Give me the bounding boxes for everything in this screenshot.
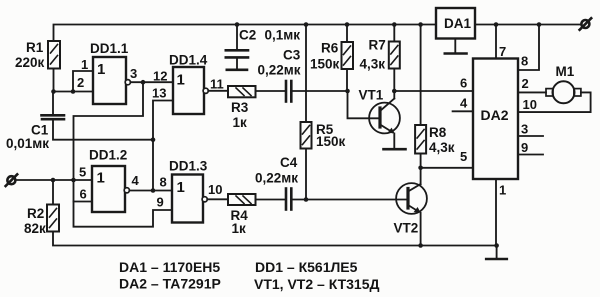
junction dot node C on DD1.4 pin13 riser — [151, 137, 156, 142]
motor driver DA2 box — [473, 59, 518, 180]
svg-text:4,3к: 4,3к — [429, 140, 455, 155]
terminal input (circle with slash) — [6, 174, 18, 186]
wire DA2 pin8 elbow to rail — [518, 25, 539, 71]
svg-text:C3: C3 — [283, 48, 301, 63]
svg-text:VT2: VT2 — [394, 221, 419, 236]
transistor VT1 — [369, 99, 400, 134]
wire node A to DD1.1 input loop — [54, 91, 74, 93]
wire DA2 pin1 to ground rail — [495, 179, 497, 246]
svg-text:R2: R2 — [27, 206, 44, 221]
wire C2 bottom lead — [236, 59, 238, 69]
wire top +V rail right of DA1 — [475, 24, 581, 26]
svg-text:1: 1 — [177, 179, 185, 196]
svg-text:DA2: DA2 — [481, 107, 509, 123]
ground chassis bar VT1 emitter — [384, 148, 406, 151]
junction dot ground rail end — [494, 243, 499, 248]
svg-text:9: 9 — [157, 195, 164, 210]
resistor R2 — [47, 205, 59, 232]
svg-text:1к: 1к — [232, 221, 247, 236]
svg-text:150к: 150к — [310, 57, 340, 72]
svg-text:5: 5 — [460, 149, 467, 164]
wire pin5 node to DA2 pin5 — [421, 167, 473, 169]
wire VT1 collector riser — [393, 91, 395, 99]
wire R7 bottom lead — [393, 69, 395, 92]
svg-text:R3: R3 — [231, 100, 249, 115]
wire C1 top lead — [52, 92, 54, 115]
DD1.2 output bubble — [124, 188, 129, 193]
wire R5 bottom to node D — [305, 149, 307, 200]
capacitor C3 — [286, 81, 291, 102]
svg-text:VT1: VT1 — [359, 88, 384, 103]
svg-text:1: 1 — [177, 72, 185, 89]
wire DD1.2 pin6 loop and link to DD1.3 pin9 — [74, 180, 173, 227]
svg-text:4: 4 — [132, 173, 140, 188]
op-amp gate DD1.1 box — [93, 57, 126, 104]
svg-text:13: 13 — [152, 86, 166, 101]
wire DA2 pin9 stub — [518, 154, 543, 156]
junction dot node B on pin3 wire — [141, 80, 146, 85]
op-amp gate DD1.2 box — [92, 166, 125, 212]
wire DA2 pin3 stub — [518, 135, 543, 137]
wire R8 bottom to pin5 node — [420, 154, 422, 168]
svg-text:4,3к: 4,3к — [360, 57, 386, 72]
svg-text:R8: R8 — [429, 125, 447, 140]
junction dot R8 at rail — [418, 22, 423, 27]
junction dot R2 tap — [51, 178, 56, 183]
resistor R1 — [48, 41, 60, 69]
junction dot R6 at rail — [345, 22, 350, 27]
wire R8 top lead from rail — [420, 25, 422, 126]
svg-text:11: 11 — [210, 77, 224, 92]
svg-text:4: 4 — [460, 96, 468, 111]
wire C3 to VT1 base node — [293, 90, 348, 92]
wire VT2 collector riser — [420, 168, 422, 185]
svg-text:150к: 150к — [316, 134, 346, 149]
svg-text:9: 9 — [521, 140, 528, 155]
op-amp gate DD1.3 box — [172, 175, 203, 223]
svg-text:DD1 – К561ЛЕ5: DD1 – К561ЛЕ5 — [255, 259, 358, 275]
junction dot pin13 riser at pin4-pin8 wire — [151, 188, 156, 193]
svg-text:0,22мк: 0,22мк — [258, 63, 301, 78]
wire R4 to C4 — [256, 199, 285, 201]
svg-text:VT1, VT2 – КТ315Д: VT1, VT2 – КТ315Д — [254, 276, 380, 292]
wire DA2 pin4 stub — [453, 110, 473, 112]
svg-text:1: 1 — [499, 183, 506, 198]
wire R7 top lead — [393, 25, 395, 42]
svg-text:8: 8 — [521, 54, 528, 69]
svg-text:7: 7 — [499, 44, 506, 59]
resistor R3 — [228, 86, 256, 97]
ground symbol at rail end — [496, 246, 498, 259]
svg-text:R7: R7 — [369, 38, 386, 53]
wire DD1.2 pin4 to DD1.3 pin8 — [129, 190, 172, 192]
resistor R8 — [415, 125, 426, 154]
svg-text:1: 1 — [97, 61, 105, 78]
transistor VT2 — [396, 183, 427, 214]
wire R3 to C3 — [256, 90, 285, 92]
wire R6 top lead — [346, 25, 348, 43]
svg-text:0,1мк: 0,1мк — [265, 28, 301, 43]
wire DD1.3 pin10 to R4 — [207, 198, 228, 200]
voltage regulator DA1 box — [436, 8, 475, 39]
wire DA2 pin2 to M1 — [518, 91, 546, 93]
wire VT2 emitter to ground rail — [420, 213, 422, 246]
junction dot pin7 at rail — [494, 22, 499, 27]
wire C4 to VT2 base — [293, 199, 408, 201]
wire DD1.1 pin1 loop — [73, 71, 93, 92]
wire input terminal to DD1.2 — [15, 179, 92, 181]
capacitor C1 — [42, 115, 65, 119]
svg-text:3: 3 — [521, 122, 528, 137]
junction dot VT2 emitter at rail — [418, 243, 423, 248]
resistor R7 — [389, 42, 400, 69]
svg-text:0,22мк: 0,22мк — [255, 171, 298, 186]
svg-text:0,01мк: 0,01мк — [6, 136, 49, 151]
junction dot node D (R5/C4/VT2 base) — [304, 197, 309, 202]
DD1.1 output bubble — [125, 80, 130, 85]
svg-text:5: 5 — [79, 165, 86, 180]
svg-text:12: 12 — [153, 69, 167, 84]
terminal +V (circle with slash) — [580, 18, 592, 30]
svg-text:R1: R1 — [26, 40, 44, 55]
svg-text:M1: M1 — [556, 64, 575, 79]
svg-text:10: 10 — [523, 97, 537, 112]
capacitor C4 — [286, 189, 291, 210]
wire VT1 base branch — [348, 91, 380, 118]
wire DD1.2 pin6 entry — [74, 201, 93, 203]
junction dot R5 line at rail — [304, 22, 309, 27]
wire C1 bottom to node C — [53, 121, 153, 140]
wire node B down and across to DD1.2 input — [74, 82, 144, 180]
wire VT1 collector node to DA2 pin6 — [394, 90, 473, 92]
ground chassis under DA1 — [454, 39, 456, 53]
wire R6 bottom lead — [346, 69, 348, 91]
wire +V rail to R5 vertical — [305, 25, 307, 123]
resistor R4 — [228, 194, 256, 205]
svg-text:220к: 220к — [15, 55, 45, 70]
svg-text:6: 6 — [80, 187, 87, 202]
svg-text:DD1.3: DD1.3 — [169, 159, 208, 174]
wire DA2 pin7 from rail — [495, 25, 497, 59]
wire DA2 pin10 loop to M1 right — [518, 92, 591, 112]
junction dot VT1 collector node — [392, 89, 397, 94]
svg-text:DA1: DA1 — [444, 16, 471, 31]
wire DD1.4 pin11 to R3 — [208, 90, 228, 92]
svg-text:R6: R6 — [321, 41, 339, 56]
motor M1 — [546, 81, 581, 103]
svg-text:8: 8 — [160, 175, 167, 190]
wire R2 top lead — [52, 180, 54, 205]
wire DD1.1 pin3 output to DD1.4 pin12 — [130, 81, 173, 83]
node A junction dot (R1/C1/DD1.1 inputs) — [51, 89, 56, 94]
junction dot VT2 collector node — [418, 166, 423, 171]
ground chassis bar under C2 — [227, 69, 247, 72]
svg-text:DD1.1: DD1.1 — [90, 41, 129, 56]
svg-text:DD1.4: DD1.4 — [169, 53, 208, 68]
wire VT1 emitter down — [393, 134, 395, 149]
wire DD1.4 pin13 riser — [153, 101, 173, 191]
wire top +V rail left of DA1 — [54, 25, 437, 42]
svg-text:10: 10 — [208, 182, 222, 197]
svg-text:6: 6 — [460, 76, 467, 91]
capacitor C2 — [226, 50, 248, 57]
svg-text:82к: 82к — [24, 221, 46, 236]
junction dot R7 at rail — [392, 22, 397, 27]
DD1.3 output bubble — [202, 197, 207, 202]
svg-text:2: 2 — [522, 76, 529, 91]
svg-text:C2: C2 — [239, 28, 256, 43]
resistor R5 — [301, 122, 312, 149]
svg-text:1: 1 — [97, 170, 105, 187]
svg-text:1к: 1к — [233, 115, 248, 130]
svg-text:2: 2 — [77, 75, 84, 90]
svg-text:1: 1 — [81, 57, 88, 72]
svg-text:DA2 – ТА7291Р: DA2 – ТА7291Р — [119, 276, 221, 292]
resistor R6 — [342, 42, 354, 69]
svg-text:C4: C4 — [280, 155, 298, 170]
wire DD1.1 pin2 — [73, 91, 93, 93]
op-amp gate DD1.4 box — [173, 67, 204, 114]
svg-text:DD1.2: DD1.2 — [89, 148, 127, 163]
wire R2 bottom to ground rail — [53, 232, 497, 246]
junction dot pin8 at rail — [537, 22, 542, 27]
junction dot VT1 base node — [345, 89, 350, 94]
svg-text:3: 3 — [130, 66, 137, 81]
junction dot C2 at rail — [235, 22, 240, 27]
wire R1 bottom to node A — [53, 69, 55, 92]
wire C2 top lead — [236, 25, 238, 50]
junction dot DD1.2 input tie — [71, 178, 76, 183]
svg-text:DA1 – 1170ЕН5: DA1 – 1170ЕН5 — [119, 259, 220, 275]
junction dot DD1.1 input tie — [71, 89, 76, 94]
DD1.4 output bubble — [203, 88, 208, 93]
